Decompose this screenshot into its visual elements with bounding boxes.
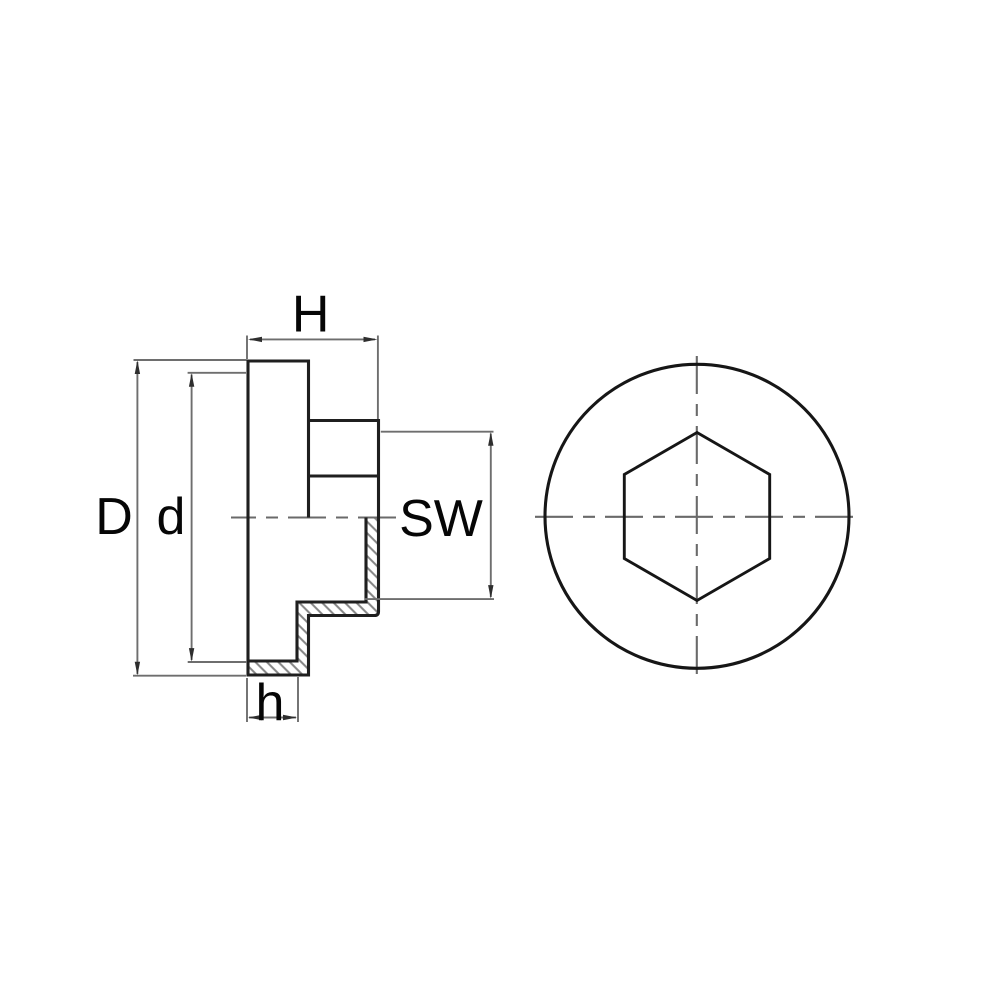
hex socket [624, 433, 769, 601]
dimension h arrows [248, 715, 297, 720]
dimension d extension lines [188, 373, 247, 662]
dimension H arrows [248, 337, 378, 342]
svg-text:SW: SW [399, 490, 483, 548]
vertical centerline [696, 356, 698, 678]
dimension D extension lines [133, 360, 247, 676]
dimension d line [191, 375, 193, 661]
svg-text:H: H [292, 286, 330, 344]
centerline left view [231, 516, 396, 518]
svg-text:h: h [256, 674, 285, 732]
dimension H extension lines [247, 336, 378, 420]
dimension H line [250, 338, 375, 340]
dimension SW line [490, 434, 492, 598]
svg-text:d: d [157, 488, 186, 546]
outer circle [545, 364, 849, 668]
horizontal centerline [535, 516, 859, 518]
dimension SW extension lines [364, 432, 494, 599]
section inner walls [247, 518, 367, 677]
dimension D line [136, 362, 138, 674]
dimension h extension lines [247, 677, 298, 722]
dimension D arrows [135, 360, 140, 675]
svg-text:D: D [95, 488, 133, 546]
dimension d arrows [189, 373, 194, 662]
hatched section area [248, 518, 379, 676]
flange outline [247, 360, 311, 677]
dimension h line [249, 717, 296, 719]
neck outline [309, 419, 379, 616]
dimension SW arrows [488, 432, 493, 599]
